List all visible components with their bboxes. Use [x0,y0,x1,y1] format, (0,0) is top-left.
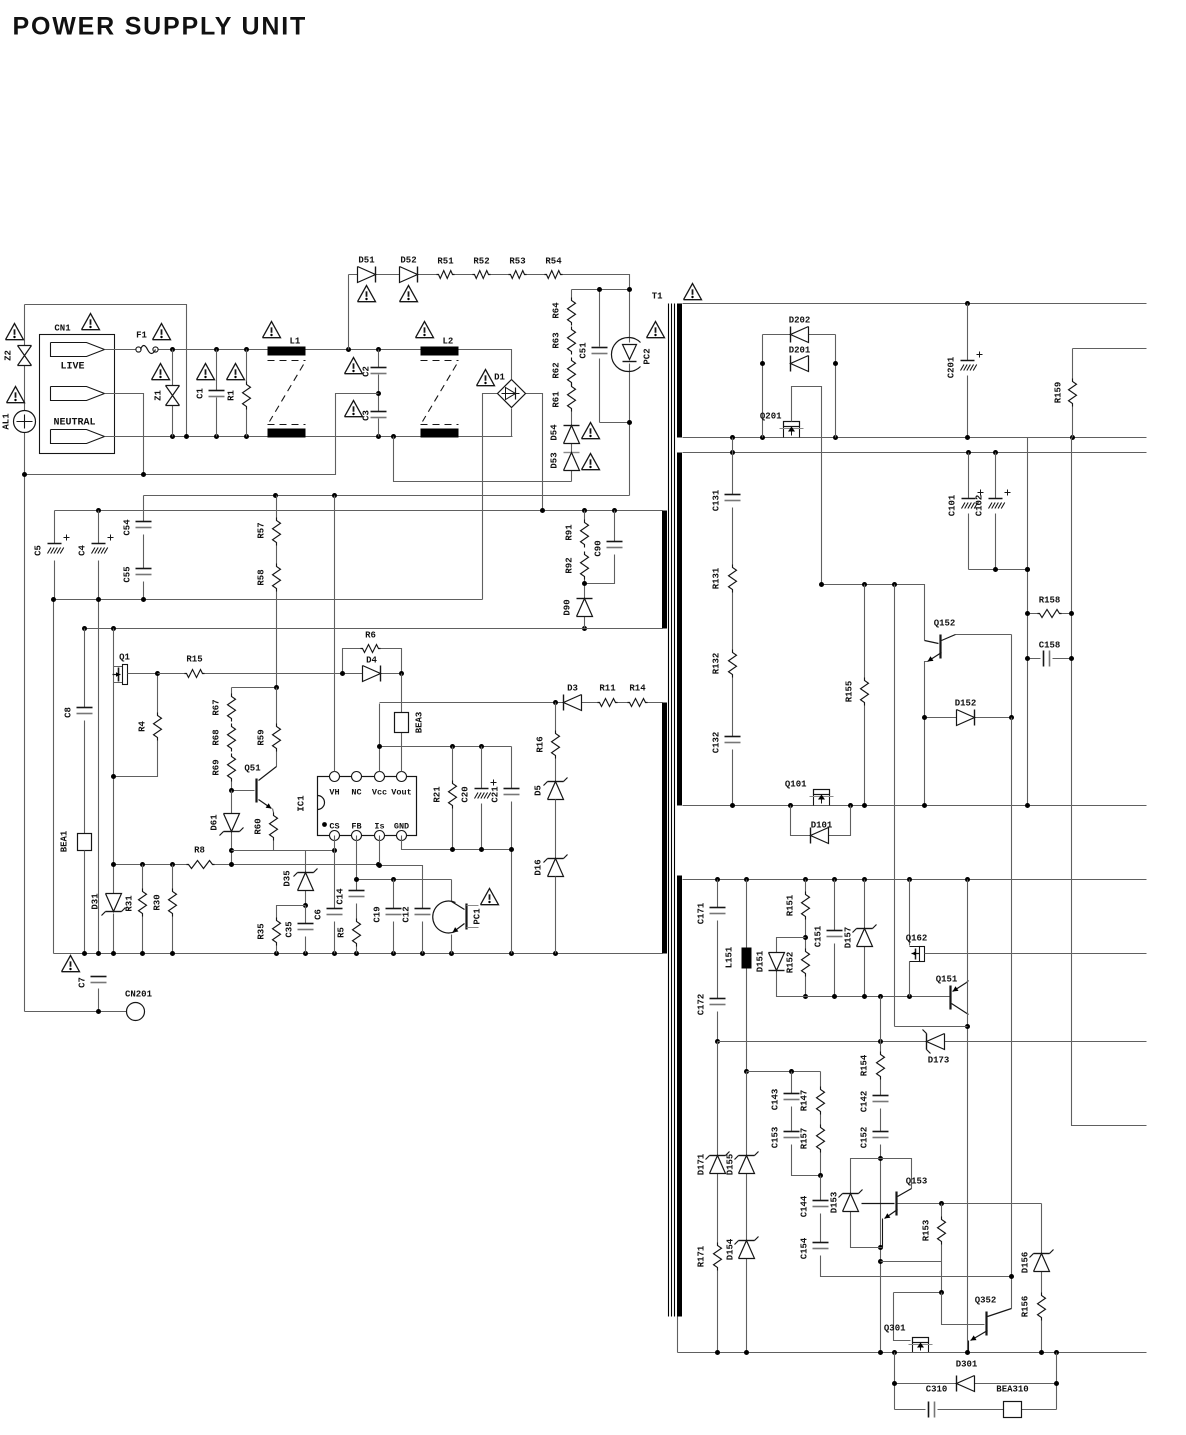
junction dot D35 bottom [303,903,308,908]
svg-text:CS: CS [329,822,339,832]
svg-text:D4: D4 [366,656,377,666]
diode D152 [925,717,1012,719]
resistor R11 [598,699,618,707]
surge arrester AL1 [14,411,36,433]
capacitor C5 [54,511,56,600]
svg-text:C51: C51 [579,342,589,359]
resistor R151 [805,880,807,892]
diode D52 [417,267,419,283]
junction dots R67 chain [274,685,279,690]
svg-text:D16: D16 [534,859,544,875]
svg-text:Z1: Z1 [154,390,164,401]
svg-text:Q301: Q301 [884,1324,906,1334]
resistor R158 [1028,613,1072,615]
svg-text:R4: R4 [138,721,148,732]
IC1 CS marker dot [322,822,327,827]
wire D201/D202 loop [763,335,836,438]
junction dots y=879 fb [354,877,359,882]
diode D301 [956,1376,958,1392]
capacitor C3 [378,394,380,437]
svg-text:R68: R68 [212,729,222,745]
junction dot C154 line [1009,1274,1014,1279]
capacitor C2 [378,350,380,394]
wire Q151 collector link y=1026 [895,585,968,1027]
svg-text:IC1: IC1 [297,795,307,812]
svg-text:C14: C14 [336,888,346,905]
warning near C2 [345,358,363,374]
wire C51 bottom [600,422,630,424]
capacitor C20 [481,747,483,850]
warning near D53 [582,454,600,470]
capacitor C201 [967,304,969,438]
capacitor C132 [725,736,741,738]
svg-text:CN1: CN1 [54,324,71,334]
warning near L1 [263,322,281,338]
svg-text:D301: D301 [956,1360,978,1370]
junction dots D201 [760,361,765,366]
svg-text:NEUTRAL: NEUTRAL [53,418,95,429]
junction dots D4 line [340,671,345,676]
svg-text:D202: D202 [789,316,811,326]
wire LIVE rail [105,350,512,380]
IC IC1 body [318,777,417,836]
resistor R30 [172,865,174,954]
diode D101 [791,806,851,836]
svg-text:R91: R91 [565,524,575,541]
T1 secondary winding A [677,304,682,438]
svg-text:R132: R132 [712,653,722,675]
svg-text:C143: C143 [771,1089,781,1111]
svg-text:BEA310: BEA310 [996,1385,1028,1395]
varistor Z1 [172,350,174,437]
svg-text:VH: VH [329,788,339,798]
svg-text:C3: C3 [362,410,372,421]
svg-text:C158: C158 [1039,641,1061,651]
svg-text:D90: D90 [563,599,573,615]
wire CS line y=850 [232,850,335,852]
resistor R51 [437,271,455,279]
resistor R132 [729,650,737,678]
resistor R155 [864,585,866,806]
resistor R31 [142,865,144,954]
svg-text:D151: D151 [756,950,766,972]
svg-text:C153: C153 [771,1127,781,1149]
capacitor C131 [725,494,741,496]
warning near AL1 [7,387,25,403]
capacitor C144 [820,1176,822,1243]
wire PC2 to C54 line y=495 [144,495,630,497]
resistor R59 [276,688,278,767]
wire R64 chain column [572,290,630,482]
wire line y=1071 [747,1071,821,1073]
svg-text:R63: R63 [552,332,562,348]
IC1 top pin NC [352,772,362,782]
svg-text:D201: D201 [789,346,811,356]
svg-text:R35: R35 [257,923,267,939]
wire R158/C158 right column [1072,438,1147,1126]
resistor R67 [228,694,236,722]
wire Q352 base link [942,1293,985,1325]
svg-text:FB: FB [351,822,361,832]
wire R67 link [232,688,277,791]
wire Vcc rail y=702 [380,702,663,704]
svg-text:R15: R15 [186,655,202,665]
svg-text:R54: R54 [545,257,562,267]
wire pin2 to C2/C3 mid [105,394,144,475]
wire R35 branch [277,906,306,954]
wire Vcc column [379,704,381,772]
svg-text:C142: C142 [860,1091,870,1113]
CN1 pin 2 arrow [51,387,105,401]
zener D5 [548,781,564,783]
svg-text:D173: D173 [928,1056,950,1066]
svg-text:R14: R14 [629,684,646,694]
junction dot gate line [939,1290,944,1295]
resistor R8 [187,861,215,869]
capacitor C8 [84,629,86,834]
wire GND line y=849 [402,836,512,850]
junction dots y=805 [730,803,735,808]
junction dots y=495 [273,493,278,498]
wire C131 chain column [732,438,734,806]
svg-text:NC: NC [351,788,361,798]
svg-text:R11: R11 [599,684,616,694]
zener D171 [717,1042,719,1243]
resistor R35 [273,918,281,946]
warning near PC1 [481,889,499,905]
ferrite bead BEA1 [78,834,92,851]
resistor R14 [628,699,648,707]
T1 secondary winding C [677,876,682,1317]
svg-text:R158: R158 [1039,596,1061,606]
wire D16 bottom [555,877,557,954]
zener D156 [1041,1204,1043,1293]
svg-text:R156: R156 [1021,1296,1031,1318]
wire CN201 line [25,1011,127,1013]
capacitor C90 [585,511,615,584]
junction dots NEUTRAL rail [170,434,175,439]
junction dot C2/C3 [376,391,381,396]
connector CN201 [127,1003,145,1021]
resistor R157 [820,1153,822,1176]
transistor Q301 (MOSFET) [913,1338,929,1343]
svg-text:C19: C19 [373,906,383,922]
zener D31 [106,911,122,913]
warning near CN1 [82,314,100,330]
diode D4 [343,673,402,675]
wire Q152 collector [956,635,1012,718]
capacitor C14 [349,890,365,892]
svg-text:C12: C12 [402,906,412,922]
svg-text:C131: C131 [712,489,722,511]
svg-text:R153: R153 [922,1220,932,1242]
warning near D54 [582,423,600,439]
svg-text:AL1: AL1 [2,413,12,430]
wire D51/D52 top line [349,275,630,350]
diode D201 [790,356,792,372]
capacitor C153 [792,1145,821,1176]
IC1 bottom pin GND [397,831,407,841]
junction dots y=510 [96,508,101,513]
wire C101 bottom y=569 [969,569,1028,571]
junction dot Q151 emitter [965,1024,970,1029]
svg-text:D153: D153 [830,1192,840,1214]
capacitor C101 [968,453,970,570]
resistor R4 [114,674,158,777]
resistor R91 [584,511,586,520]
svg-text:R171: R171 [697,1245,707,1267]
svg-text:R155: R155 [845,681,855,703]
svg-text:R52: R52 [473,257,489,267]
junction dots y=628 [111,626,116,631]
resistor R54 [545,271,563,279]
junction dot y=1071 [789,1069,794,1074]
svg-text:R92: R92 [565,557,575,573]
resistor R53 [509,271,527,279]
wire Q151 emitter column x=968 [967,880,969,1353]
diode D202 [790,327,792,343]
wire sec rail y=805 [683,805,1147,807]
svg-text:CN201: CN201 [125,990,153,1000]
opto-LED PC2 [629,290,631,496]
capacitor C7 [91,976,107,978]
T1 secondary winding B [677,453,682,806]
capacitor C4 [98,511,100,600]
wire D152 to Q352 collector column [1011,718,1013,1309]
inductor L1 [268,347,306,356]
svg-text:C5: C5 [34,545,44,556]
svg-text:L151: L151 [725,946,735,968]
junction dots y=746 [377,744,382,749]
wire FB rail y=879 [357,879,452,881]
warning near PC2 [647,322,665,338]
svg-text:D5: D5 [534,785,544,796]
svg-text:F1: F1 [136,331,147,341]
inductor L151 [746,880,748,1072]
junction dots R8 rail [111,862,116,867]
warning near Z2 [6,324,24,340]
svg-text:C172: C172 [697,994,707,1016]
junction dot C172 bottom [715,1039,720,1044]
wire primary bottom bus y=953 [54,953,663,955]
svg-text:R31: R31 [125,895,135,912]
svg-text:C151: C151 [814,925,824,947]
wire VH column [334,496,336,772]
svg-text:C144: C144 [800,1195,810,1217]
wire Q201 gate loop [792,387,822,585]
junction dots y=599 [51,597,56,602]
T1 primary winding P1 [662,511,667,629]
junction dot Vcc rail [553,700,558,705]
zener D35 [305,851,307,906]
svg-text:PC1: PC1 [473,908,483,925]
svg-text:D61: D61 [210,814,220,831]
resistor R16 [555,703,557,782]
transistor Q153 [895,1192,897,1216]
svg-text:C90: C90 [594,540,604,556]
transistor Q1 (MOSFET) [114,667,123,683]
wire D301 loop [895,1353,1057,1410]
svg-text:R58: R58 [257,569,267,585]
svg-text:Is: Is [374,822,384,832]
T1 primary winding P2 [662,703,667,954]
junction dots Q1 area [155,671,160,676]
svg-text:R59: R59 [257,729,267,745]
junction dots y=584 [819,582,824,587]
warning near T1 [684,284,702,300]
wire R8 rail y=864 [114,864,380,866]
junction dot Is line [377,863,382,868]
wire sec line y=996 [777,996,951,998]
svg-text:L2: L2 [443,337,454,347]
capacitor C12 [415,908,431,910]
wire bulk+ rail y=510 [55,510,663,512]
svg-text:R53: R53 [509,257,525,267]
capacitor C158 [1028,658,1072,660]
resistor R5 [353,919,361,947]
warning near Z1 [152,364,170,380]
svg-text:C152: C152 [860,1127,870,1149]
CN1 pin NEUTRAL arrow [51,430,105,444]
wire base rail y=1203 [898,1203,1042,1205]
transistor Q201 (sync MOSFET) [784,422,800,427]
svg-text:D101: D101 [811,821,833,831]
warning near R1 [227,364,245,380]
svg-text:C20: C20 [461,786,471,802]
svg-text:LIVE: LIVE [60,362,84,373]
svg-text:R21: R21 [433,786,443,803]
warning near F1 [153,324,171,340]
resistor R6 [343,649,402,674]
capacitor C55 [143,582,145,600]
transistor Q101 (sync MOSFET) [814,790,830,795]
svg-text:C55: C55 [123,566,133,582]
capacitor C54 [143,496,145,569]
diode D90 [584,584,586,629]
diode D53 [564,452,580,454]
wire drain rail y=628 [85,628,663,630]
resistor R60 [232,809,274,851]
svg-text:D52: D52 [400,256,416,266]
capacitor C21 [511,747,513,954]
wire C158 left column [1027,438,1029,806]
resistor R57 [276,496,278,518]
svg-text:Q151: Q151 [936,975,958,985]
wire R154 column [880,997,882,1353]
fuse F1 [136,347,141,352]
CN1 pin LIVE arrow [51,343,105,357]
svg-text:Z2: Z2 [4,350,14,361]
transistor Q152 [939,635,941,659]
svg-text:C102: C102 [975,495,985,517]
capacitor C35 [305,906,307,954]
junction dots y=996 [832,994,837,999]
connector CN1 box [40,335,115,454]
wire Q152 base line y=584 [822,585,925,641]
svg-text:Q1: Q1 [119,653,130,663]
warning near C7 [62,956,80,972]
warning near C3 [345,401,363,417]
zener D16 [548,858,564,860]
resistor R171 [714,1243,722,1271]
junction dots y=452 [730,450,735,455]
svg-text:D51: D51 [358,256,375,266]
wire Q1 drain column [113,629,115,954]
svg-text:D31: D31 [91,893,101,910]
wire outer loop left-top [25,305,187,438]
wire sec rail y=452 [683,452,1147,454]
ferrite bead BEA310 [1004,1402,1022,1418]
resistor R159 [1073,349,1147,438]
svg-text:D157: D157 [844,927,854,949]
capacitor C102 [995,453,997,570]
resistor R21 [452,747,454,850]
inductor L2 [421,347,459,356]
svg-text:C2: C2 [362,366,372,377]
junction dots bottom bus [82,951,87,956]
svg-text:R62: R62 [552,362,562,378]
svg-text:R60: R60 [254,818,264,834]
capacitor C51 [599,290,601,423]
svg-text:C154: C154 [800,1237,810,1259]
IC1 bottom pin FB [352,831,362,841]
svg-text:R157: R157 [800,1128,810,1150]
zener D153 [843,1193,859,1195]
svg-text:Q153: Q153 [906,1177,928,1187]
resistor R58 [276,546,278,688]
varistor Z2 [18,346,32,366]
transistor Q51 [255,779,257,803]
svg-text:Q352: Q352 [975,1296,997,1306]
svg-text:D155: D155 [726,1154,736,1176]
svg-text:C201: C201 [947,356,957,378]
diode D3 [563,695,565,711]
diode D54 [564,425,580,427]
wire CS column [334,836,336,954]
svg-text:C1: C1 [196,388,206,399]
capacitor C19 [393,880,395,954]
IC1 top pin VH [330,772,340,782]
transistor Q352 [985,1312,987,1336]
wire sec rail y=437 [683,437,1147,439]
junction dots y=879 [715,877,720,882]
svg-text:R6: R6 [365,631,376,641]
wire Q153 collector link [881,1159,912,1189]
wire primary- rail y=599 [54,600,483,954]
resistor R156 [1041,1321,1043,1353]
IC1 top pin Vout [397,772,407,782]
zener D155 [746,1072,748,1241]
svg-text:R64: R64 [552,302,562,319]
svg-text:R67: R67 [212,699,222,715]
resistor R92 [581,552,589,580]
junction dot CS line [332,848,337,853]
resistor R147 [820,1072,822,1125]
svg-text:BEA3: BEA3 [415,712,425,734]
svg-text:T1: T1 [652,292,663,302]
svg-text:R154: R154 [860,1054,870,1076]
svg-text:R159: R159 [1054,382,1064,404]
resistor R63 [568,327,576,355]
wire Q301 gate line [894,1293,942,1341]
svg-text:C310: C310 [926,1385,948,1395]
wire D153 loop [851,1159,883,1248]
svg-text:D156: D156 [1021,1252,1031,1274]
zener D61 [231,791,233,865]
svg-text:D171: D171 [697,1153,707,1175]
svg-text:Vout: Vout [391,788,411,798]
capacitor C151 [834,880,836,997]
